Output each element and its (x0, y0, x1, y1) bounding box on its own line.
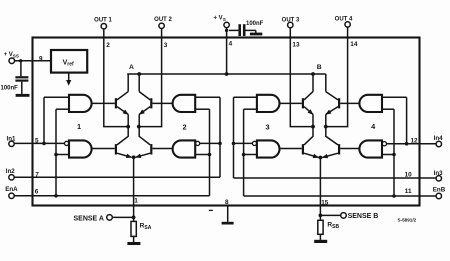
terminal EnA pin 6 (5, 186, 39, 198)
wire In3 to In3 riser (234, 177, 437, 179)
node bus/pin4 (225, 72, 229, 76)
wire gate1-top input EnA (56, 108, 69, 110)
node sense A junction (132, 216, 136, 220)
terminal In3 pin 10 (405, 170, 443, 181)
wire gate1-top input In1 (44, 96, 69, 98)
wire gate3-bottom output to Q7 base (279, 148, 302, 150)
wire gate1-bottom output to Q3 base (91, 148, 115, 150)
terminal In2 pin 7 (6, 168, 40, 180)
terminal SENSE A (74, 215, 113, 223)
terminal In1 pin 5 (7, 136, 40, 147)
node EnB/gate3-bottom (242, 153, 246, 157)
terminal OUT4 (335, 17, 353, 27)
svg-text:OUT 3: OUT 3 (282, 17, 300, 23)
svg-text:14: 14 (350, 41, 358, 48)
node bridge A right mid (OUT2) (137, 125, 141, 129)
In3 riser (233, 97, 235, 178)
svg-text:1: 1 (134, 198, 138, 205)
terminal +Vss (4, 52, 19, 63)
wire gate1-top output to Q1 base (91, 102, 115, 104)
arrow from Vref to logic (66, 73, 71, 86)
transistor Q4 (bridge A lower-right) (136, 127, 153, 158)
svg-text:In2: In2 (6, 168, 15, 175)
wire GND pin 8 (227, 206, 229, 222)
resistor RSA (131, 217, 152, 236)
ground (decoupling cap) (250, 30, 262, 35)
transistor Q5 (bridge B upper-left) (302, 74, 313, 127)
AND gate 1 top (69, 95, 92, 112)
svg-text:6: 6 (35, 189, 39, 196)
svg-text:In4: In4 (434, 135, 443, 142)
wire sense A (112, 216, 133, 218)
wire gate2-top input In2 (195, 96, 220, 98)
IC package outline box (33, 38, 420, 206)
svg-text:13: 13 (292, 42, 300, 49)
EnA left riser (55, 109, 57, 196)
terminal OUT2 (154, 17, 172, 28)
AND gate 4 top (mirrored) (359, 95, 382, 112)
wire bridge A common to sense pin 1 (133, 157, 135, 217)
AND gate 2 top (mirrored) (173, 95, 196, 112)
node bridge A left mid (OUT1) (126, 125, 130, 129)
terminal SENSE B (341, 213, 379, 221)
wire gate4-top input In4 (382, 96, 407, 98)
wire EnB to EnB left riser (244, 195, 437, 197)
wire OUT4 to bridge B right mid-node (326, 27, 348, 127)
AND gate 4 bottom (inverted input, mirrored) (359, 140, 386, 157)
transistor Q1 (bridge A upper-left) (115, 74, 128, 127)
terminal OUT1 (94, 18, 112, 29)
node EnB/gate4-bottom (392, 153, 396, 157)
svg-text:RSA: RSA (140, 222, 152, 231)
svg-text:11: 11 (405, 188, 412, 195)
terminal +Vs (214, 16, 230, 28)
ground (pin 8) (222, 222, 234, 225)
wire In4 to gate4-bottom bubble (387, 143, 437, 145)
node In3/gate3-bottom bubble (232, 142, 236, 146)
wire OUT2 to bridge A right mid-node (139, 29, 162, 127)
svg-text:+ VSS: + VSS (4, 52, 19, 58)
node bridge A emitter common (132, 155, 136, 159)
wire OUT1 to bridge A left mid-node (104, 29, 128, 127)
wire gate3-bottom inverted input In3 (234, 142, 253, 144)
wire bridge B common to sense pin 15 (319, 158, 321, 216)
svg-text:3: 3 (265, 123, 269, 132)
wire sense B (320, 214, 340, 216)
wire gate4-bottom input EnB (382, 154, 394, 156)
wire +Vss pin 9 to Vref block (15, 60, 51, 62)
wire gate2-bottom inverted input In2 (200, 142, 220, 144)
node bus/bridge A (137, 72, 141, 76)
node +Vs/cap junction (225, 29, 228, 32)
svg-text:9: 9 (39, 55, 43, 62)
node bridge B emitter common (319, 156, 323, 160)
svg-text:A: A (129, 64, 134, 71)
resistor RSB (318, 215, 340, 234)
node In1 riser junction (42, 142, 46, 146)
node EnA wire junction (54, 194, 58, 198)
stray mark (209, 209, 213, 211)
wire gate3-top output to Q5 base (279, 102, 302, 104)
svg-text:15: 15 (321, 199, 329, 206)
svg-text:SENSE B: SENSE B (348, 213, 379, 220)
svg-text:EnA: EnA (5, 186, 18, 193)
terminal In4 pin 12 (411, 135, 444, 147)
svg-text:EnB: EnB (433, 186, 446, 193)
node In4 riser junction (405, 142, 409, 146)
svg-text:1: 1 (77, 122, 81, 131)
terminal OUT3 (282, 17, 300, 27)
svg-text:2: 2 (182, 122, 186, 131)
transistor Q2 (bridge A upper-right) (139, 74, 152, 127)
wire gate3-bottom input EnB (244, 154, 257, 156)
AND gate 3 bottom (inverted input) (252, 140, 279, 157)
svg-text:OUT 2: OUT 2 (154, 17, 172, 23)
AND gate 3 top (257, 95, 280, 112)
wire gate2-bottom input EnA (195, 154, 209, 156)
svg-text:SENSE A: SENSE A (74, 215, 104, 222)
node EnB wire junction (392, 194, 396, 198)
svg-text:S-5891/2: S-5891/2 (398, 218, 417, 223)
wire EnA to EnA right riser (14, 195, 209, 197)
EnA right riser (209, 109, 211, 196)
voltage reference block Vref (51, 50, 87, 73)
In2 riser (219, 97, 221, 177)
svg-text:B: B (317, 64, 322, 71)
svg-text:8: 8 (225, 199, 229, 206)
wire gate4-bottom output to Q8 base (340, 148, 360, 150)
EnB left riser (243, 109, 245, 196)
svg-text:In1: In1 (7, 136, 16, 143)
node +Vss/cap junction (19, 59, 22, 62)
internal +Vs supply bus (127, 73, 326, 75)
ground (logic cap) (16, 94, 30, 97)
svg-text:100nF: 100nF (246, 21, 264, 27)
AND gate 2 bottom (inverted input, mirrored) (173, 140, 200, 157)
node EnA/gate2-bottom (208, 153, 212, 157)
svg-text:100nF: 100nF (1, 85, 19, 91)
svg-text:In3: In3 (434, 170, 443, 177)
wire gate4-top input EnB (382, 108, 394, 110)
wire gate4-top output to Q6 base (340, 102, 360, 104)
node EnA/gate1-bottom (54, 153, 58, 157)
wire In2 to In2 riser (14, 176, 220, 178)
wire OUT3 to bridge B left mid-node (290, 28, 313, 127)
wire gate2-top output to Q2 base (152, 102, 173, 104)
wire gate2-top input EnA (195, 108, 209, 110)
wire gate3-top input EnB (244, 108, 257, 110)
wire In1 to gate1-bottom bubble (14, 142, 64, 144)
svg-text:2: 2 (106, 42, 110, 49)
wire +Vs pin 4 down to internal supply bus (226, 28, 228, 74)
svg-text:4: 4 (229, 40, 233, 47)
transistor Q3 (bridge A lower-left) (115, 127, 132, 158)
In1 riser (43, 97, 45, 143)
ground (RSB) (314, 234, 327, 243)
wire gate2-bottom output to Q4 base (152, 148, 173, 150)
svg-text:OUT 1: OUT 1 (94, 18, 112, 24)
node bus/bridge B (311, 72, 315, 76)
transistor Q7 (bridge B lower-left) (302, 127, 319, 158)
AND gate 1 bottom (inverted input) (65, 140, 92, 157)
node bridge B left mid (OUT3) (311, 125, 315, 129)
svg-text:4: 4 (371, 122, 376, 131)
svg-text:RSB: RSB (327, 221, 339, 230)
capacitor 100nF (logic supply) (1, 61, 29, 94)
node In2/gate2-bottom bubble (218, 142, 222, 146)
svg-text:Vref: Vref (63, 59, 74, 67)
svg-text:+ VS: + VS (214, 16, 226, 22)
svg-text:OUT 4: OUT 4 (335, 17, 353, 23)
ground (RSA) (127, 236, 140, 245)
node sense B junction (319, 214, 323, 218)
In4 riser (406, 97, 408, 143)
capacitor 100nF (supply decoupling) (229, 21, 264, 36)
node bridge B right mid (OUT4) (324, 125, 328, 129)
wire gate1-bottom input EnA (56, 154, 69, 156)
transistor Q8 (bridge B lower-right) (322, 127, 340, 158)
wire gate3-top input In3 (234, 96, 257, 98)
svg-text:3: 3 (164, 42, 168, 49)
terminal EnB pin 11 (405, 186, 446, 198)
EnB right riser (393, 109, 395, 196)
transistor Q6 (bridge B upper-right) (326, 74, 340, 127)
